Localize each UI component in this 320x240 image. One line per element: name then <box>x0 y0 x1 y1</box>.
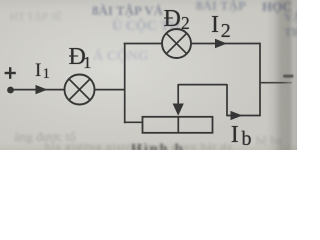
wire: junction to lamp D2 <box>124 43 162 45</box>
wire: down segment to Ib run <box>226 84 228 116</box>
wire: wiper up to horizontal run <box>178 84 227 86</box>
rheostat R <box>143 117 213 133</box>
wire: lamp D2 to right corner <box>191 43 260 45</box>
label + (plus terminal) <box>0 0 30 100</box>
bleed-through text top-right <box>196 0 246 14</box>
minus terminal mark <box>283 75 294 78</box>
label I1 <box>35 61 41 80</box>
wire: junction to rheostat <box>125 121 144 123</box>
label Ib <box>231 123 239 147</box>
wire: Ib run to right vertical <box>226 115 260 117</box>
bleed-through navy fragment right edge <box>284 10 301 40</box>
bleed-through text top line navy left <box>92 3 163 19</box>
bleed-through text bottom row <box>14 129 76 145</box>
bleed-through text top corner navy <box>262 0 292 15</box>
bleed-through caption Hinh <box>131 142 185 158</box>
rheostat wiper arrow <box>173 84 184 116</box>
label D2 <box>164 7 181 31</box>
lamp D1 <box>65 75 95 105</box>
wire: output to minus terminal <box>260 82 292 84</box>
current arrow I1 <box>36 85 48 94</box>
bleed-through text mid-left blue <box>93 49 149 65</box>
current arrow Ib <box>231 111 243 120</box>
lamp D2 <box>162 29 191 58</box>
paper vignette <box>0 0 297 150</box>
bleed-through text top-left <box>10 11 62 23</box>
bleed-through text bottom-right <box>256 133 282 148</box>
wire: lamp D1 to junction <box>95 89 125 91</box>
right page-gutter shadow <box>0 0 297 150</box>
bottom edge shading <box>0 0 297 150</box>
label I2 <box>211 13 219 37</box>
current arrow I2 <box>215 39 227 49</box>
wire: right vertical <box>259 43 261 117</box>
label D1 <box>69 45 86 69</box>
paper grain <box>0 0 297 150</box>
bleed-through bottom-most strip <box>45 141 233 153</box>
wire: + terminal to lamp D1 <box>11 89 65 91</box>
circuit drawing <box>0 0 297 150</box>
bleed-through text second line blue <box>112 19 180 35</box>
wire: junction vertical branch <box>124 44 126 124</box>
top edge shading <box>0 0 297 150</box>
terminal node + <box>7 87 14 94</box>
